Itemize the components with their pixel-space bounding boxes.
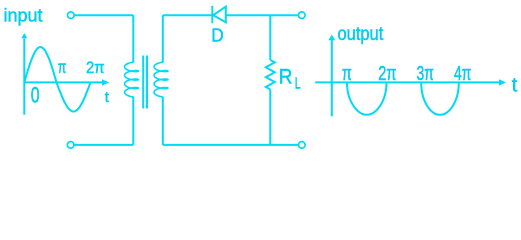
wire: diode to top-right terminal — [226, 14, 299, 16]
svg-text:0: 0 — [31, 84, 40, 108]
svg-text:π: π — [342, 63, 352, 85]
wire: primary top vertical — [132, 15, 134, 62]
output hump 1 — [347, 82, 387, 114]
terminal top-right — [299, 12, 306, 19]
wire: RL top vertical — [269, 15, 271, 60]
svg-text:L: L — [295, 76, 301, 93]
wire: bottom-left rail — [74, 144, 133, 146]
transformer core — [142, 56, 144, 109]
wire: secondary top vertical — [162, 15, 164, 62]
svg-text:input: input — [4, 6, 43, 26]
svg-text:t: t — [105, 89, 110, 106]
wire: primary bottom vertical — [132, 97, 134, 145]
wire: RL bottom vertical — [269, 89, 271, 144]
wire: top rail secondary to diode — [163, 14, 212, 16]
diode D triangle — [213, 7, 226, 23]
wire: secondary bottom vertical — [162, 97, 164, 145]
primary coil winding — [125, 62, 139, 97]
svg-text:3π: 3π — [417, 63, 434, 85]
terminal top-left — [68, 12, 75, 19]
output hump 2 — [421, 82, 459, 114]
svg-text:4π: 4π — [454, 63, 471, 85]
left graph horizontal axis — [24, 81, 102, 83]
svg-text:D: D — [211, 24, 224, 45]
right graph horizontal axis — [315, 81, 499, 83]
resistor RL zigzag — [266, 60, 275, 89]
svg-text:2π: 2π — [378, 63, 396, 85]
wire: bottom rail secondary to bottom-right terminal — [163, 144, 299, 146]
svg-text:2π: 2π — [86, 58, 105, 77]
secondary coil winding — [154, 62, 168, 97]
wire: top-left terminal to primary — [74, 14, 133, 16]
terminal bottom-left — [67, 142, 74, 149]
right graph vertical axis — [331, 40, 333, 117]
left graph vertical axis — [23, 39, 25, 115]
svg-text:t: t — [512, 75, 518, 97]
svg-text:R: R — [279, 64, 293, 88]
svg-text:output: output — [338, 24, 384, 45]
diode D cathode bar — [211, 6, 213, 23]
input sine wave — [24, 47, 90, 112]
svg-text:π: π — [58, 57, 67, 77]
terminal bottom-right — [299, 142, 306, 149]
